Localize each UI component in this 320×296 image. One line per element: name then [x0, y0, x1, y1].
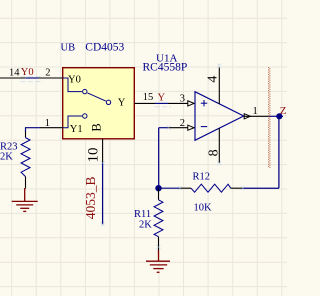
part type CD4053 — [85, 42, 124, 54]
value label 10K of R12 — [194, 203, 213, 214]
op-amp minus symbol — [201, 126, 207, 128]
net label Y — [158, 93, 166, 104]
wire net Y0 — [25, 77, 38, 79]
pin number 15 of UB — [143, 92, 154, 103]
op-amp U1A triangle — [195, 92, 244, 141]
value label R12 — [193, 172, 211, 183]
svg-text:3: 3 — [180, 94, 185, 105]
net label 4053_B — [83, 177, 98, 220]
pin name Y — [118, 98, 126, 109]
svg-text:Y: Y — [158, 93, 166, 104]
part type RC4558P — [143, 62, 188, 74]
svg-text:2K: 2K — [139, 220, 152, 231]
svg-text:10: 10 — [86, 148, 102, 163]
svg-text:2: 2 — [180, 118, 185, 129]
pin number 14 — [9, 67, 20, 78]
svg-text:R11: R11 — [134, 209, 151, 220]
pin number 2 of UB — [45, 68, 50, 79]
pin number 4 of U1A — [206, 76, 221, 83]
pin Y1 stub of UB — [40, 127, 63, 129]
svg-text:8: 8 — [207, 149, 222, 156]
multiplexer UB CD4053 body — [63, 68, 135, 139]
pin B stub of UB (pin 10) — [102, 139, 104, 163]
svg-text:10K: 10K — [194, 203, 213, 214]
svg-text:4053_B: 4053_B — [83, 177, 98, 220]
op-amp plus symbol — [201, 100, 207, 106]
svg-text:CD4053: CD4053 — [85, 42, 124, 54]
net label Y0 — [21, 67, 34, 78]
pin Y0 stub of UB — [39, 77, 63, 79]
pin number 1 of U1A — [253, 106, 258, 117]
pin 14 stub (off-sheet component) — [0, 77, 25, 79]
svg-text:15: 15 — [143, 92, 154, 103]
pin number 2 of U1A — [180, 118, 185, 129]
wire R23 top vertical — [25, 127, 27, 132]
resistor R11 — [154, 188, 163, 250]
wire junction to R12 — [159, 187, 180, 189]
wire net Y1/R23 horizontal — [26, 127, 41, 129]
wire Z1 down right side — [278, 116, 280, 188]
designator UB — [61, 43, 76, 54]
svg-text:2: 2 — [45, 68, 50, 79]
dotted orange line (selection) — [269, 67, 270, 168]
ground GND bottom — [146, 250, 170, 272]
value label 2K of R11 — [139, 220, 152, 231]
svg-text:RC4558P: RC4558P — [143, 62, 188, 74]
pin name Y1 — [70, 124, 83, 135]
svg-text:B: B — [90, 123, 104, 131]
ground GND left — [12, 188, 38, 211]
pin 1 of U1A (output) — [244, 114, 268, 119]
wire net Y to op-amp — [155, 102, 168, 104]
pin number 3 of U1A — [180, 94, 185, 105]
net label Z1 — [280, 105, 292, 117]
svg-text:UB: UB — [61, 43, 76, 54]
designator U1A — [156, 53, 177, 65]
svg-text:Y: Y — [118, 98, 126, 109]
svg-text:4: 4 — [206, 76, 221, 83]
svg-text:Y1: Y1 — [70, 124, 83, 135]
pin number 10 of UB — [86, 148, 102, 163]
pin number 8 of U1A — [207, 149, 222, 156]
resistor R12 — [179, 184, 244, 192]
pin 8 of U1A (power) — [218, 128, 220, 163]
pin number 1 of UB — [45, 118, 50, 129]
junction at R11/R12 node — [155, 185, 161, 191]
svg-text:R12: R12 — [193, 172, 211, 183]
resistor R23 — [21, 132, 30, 189]
pin name B — [90, 123, 104, 131]
value label R23 — [0, 142, 18, 153]
pin name Y0 — [68, 75, 81, 86]
value label R11 — [134, 209, 151, 220]
wire feedback to pin 2 — [159, 128, 168, 189]
pin 2 of U1A — [168, 125, 194, 130]
wire net Z1 output — [269, 115, 284, 117]
pin 3 of U1A — [168, 101, 194, 106]
pin 4 of U1A (power) — [218, 68, 220, 105]
pin Y stub of UB (pin 15) — [134, 102, 155, 104]
wire feedback bottom horizontal — [244, 187, 279, 189]
svg-text:Y0: Y0 — [68, 75, 81, 86]
junction at Z1 node — [276, 113, 282, 119]
switch inside UB — [63, 78, 111, 128]
endpoint markers (light blue) — [21, 64, 245, 250]
wire net 4053_B — [102, 163, 104, 224]
value label 2K of R23 — [0, 152, 13, 163]
svg-text:2K: 2K — [0, 152, 13, 163]
svg-text:1: 1 — [253, 106, 258, 117]
svg-text:14: 14 — [9, 67, 20, 78]
